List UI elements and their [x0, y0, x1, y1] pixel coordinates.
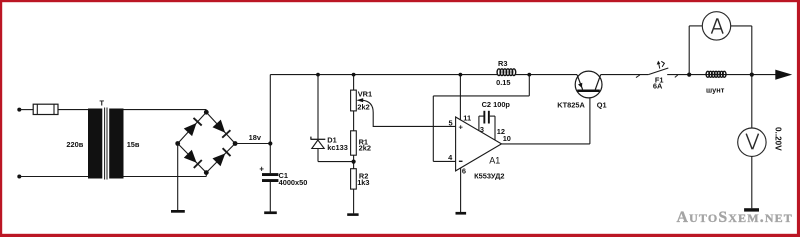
svg-text:1k3: 1k3: [357, 178, 369, 187]
svg-text:AUTOSXEM.NET: AUTOSXEM.NET: [677, 209, 793, 226]
svg-text:T: T: [99, 99, 104, 108]
svg-text:kc133: kc133: [327, 143, 348, 152]
svg-text:Q1: Q1: [597, 100, 607, 109]
svg-text:KT825A: KT825A: [557, 100, 585, 109]
svg-text:3: 3: [480, 125, 484, 134]
svg-text:5: 5: [448, 118, 452, 127]
svg-text:К553УД2: К553УД2: [474, 172, 504, 181]
svg-text:18v: 18v: [249, 133, 262, 142]
svg-text:10: 10: [503, 134, 511, 143]
svg-text:A1: A1: [489, 156, 500, 166]
svg-text:2k2: 2k2: [359, 143, 371, 152]
svg-text:+: +: [458, 123, 463, 132]
svg-text:C2 100p: C2 100p: [482, 100, 511, 109]
svg-text:+: +: [259, 165, 264, 174]
svg-text:шунт: шунт: [706, 85, 725, 94]
svg-text:15в: 15в: [127, 140, 140, 149]
svg-text:0..20V: 0..20V: [774, 127, 783, 151]
svg-text:R3: R3: [498, 59, 507, 68]
svg-text:0.15: 0.15: [496, 78, 510, 87]
svg-text:2k2: 2k2: [357, 102, 369, 111]
svg-text:220в: 220в: [66, 140, 83, 149]
svg-text:VR1: VR1: [358, 89, 372, 98]
svg-text:6A: 6A: [653, 82, 663, 91]
svg-text:11: 11: [463, 114, 471, 123]
svg-text:4000x50: 4000x50: [279, 178, 308, 187]
svg-text:6: 6: [462, 167, 466, 176]
